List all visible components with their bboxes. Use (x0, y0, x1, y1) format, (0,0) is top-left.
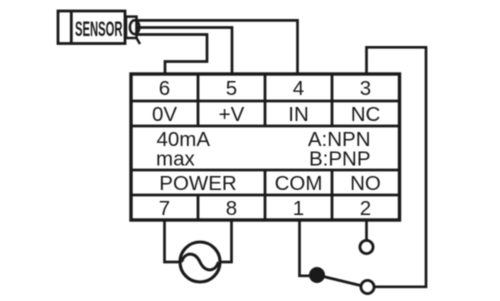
svg-text:6: 6 (159, 77, 170, 100)
wire terminal 8 to AC source (219, 220, 232, 262)
svg-text:1: 1 (293, 197, 304, 220)
wire terminal 3 to NC contact (367, 47, 427, 286)
svg-text:IN: IN (288, 103, 309, 126)
svg-text:POWER: POWER (159, 172, 236, 195)
sensor body (58, 11, 125, 44)
wire terminal 1 to switch common (300, 220, 318, 276)
svg-text:4: 4 (293, 77, 304, 100)
wire sensor to terminal 6 (136, 35, 207, 75)
NC contact (open circle) (361, 280, 374, 293)
wire sensor to terminal 5 (136, 28, 232, 75)
terminal block table (131, 74, 400, 220)
wire terminal 2 to NO contact (365, 220, 368, 241)
NO contact (open circle) (360, 240, 373, 253)
switch common junction (filled dot) (309, 267, 325, 283)
svg-text:NC: NC (351, 103, 381, 126)
svg-text:COM: COM (275, 172, 323, 195)
svg-text:3: 3 (360, 77, 371, 100)
switch blade (317, 275, 361, 286)
svg-text:0V: 0V (152, 103, 177, 126)
svg-text:B:PNP: B:PNP (309, 148, 371, 171)
svg-text:+V: +V (219, 103, 245, 126)
wire sensor to terminal 4 (136, 20, 298, 74)
wire terminal 7 to AC source (165, 220, 182, 262)
connector plug (126, 17, 140, 44)
svg-text:7: 7 (159, 197, 170, 220)
svg-text:8: 8 (226, 197, 237, 220)
svg-text:2: 2 (360, 197, 371, 220)
svg-text:5: 5 (226, 77, 237, 100)
AC source (180, 242, 220, 282)
svg-text:SENSOR: SENSOR (75, 17, 123, 41)
svg-text:NO: NO (350, 172, 381, 195)
svg-text:max: max (156, 148, 195, 171)
